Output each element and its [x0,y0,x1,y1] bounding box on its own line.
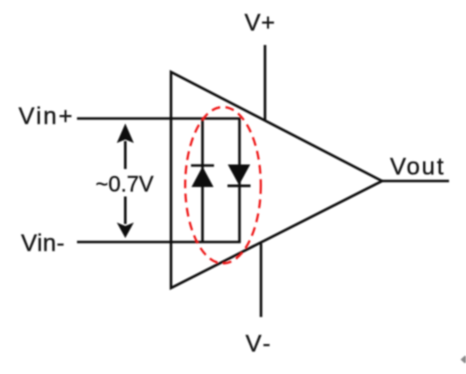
wire V- supply [260,244,263,318]
op-amp U1 [171,72,382,288]
svg-text:Vin+: Vin+ [19,103,73,130]
svg-text:Vout: Vout [390,154,444,181]
artifact mark bottom-right [461,356,466,364]
wire left diode branch [201,119,204,243]
diode D1 [191,166,214,188]
svg-text:V-: V- [246,331,271,358]
wire Vin- [77,241,241,244]
wire V+ supply [264,45,267,121]
svg-text:Vin-: Vin- [21,230,65,257]
wire right diode branch [238,119,241,243]
wire Vin+ [77,117,241,120]
svg-text:V+: V+ [245,10,276,37]
annotation ellipse (red dashed) [185,107,261,263]
dimension arrow ~0.7V [117,124,134,239]
diode D2 [228,165,251,186]
svg-text:~0.7V: ~0.7V [96,172,154,197]
wire Vout [382,180,449,183]
